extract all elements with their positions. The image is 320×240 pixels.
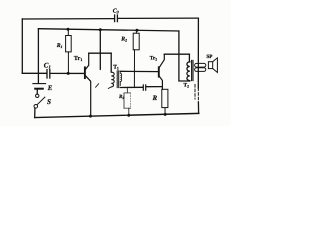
node base Tr1 [67, 72, 70, 75]
capacitor C2 [143, 85, 145, 90]
capacitor C1 [47, 70, 50, 78]
wire rail2 drop to T1 [99, 30, 101, 70]
resistor R1 [66, 29, 72, 73]
wire faint diag near emitter [96, 84, 99, 88]
node R1 top [67, 28, 70, 31]
wire T1 secondary top to Tr2 base [120, 70, 158, 72]
transformer T1 core [117, 71, 119, 88]
svg-text:S: S [47, 98, 51, 106]
resistor R3 [124, 87, 131, 115]
wire C2 to emitter Tr2 [146, 86, 162, 88]
wire rail2 right drop to T2 bottom [179, 31, 190, 81]
svg-text:C3: C3 [113, 8, 119, 14]
wire C1 to base node [51, 72, 85, 74]
node R bottom [164, 113, 167, 116]
node emitter Tr1 bottom [89, 115, 92, 118]
wire top rail right of C3 [118, 17, 199, 19]
wire right bottom corner [197, 102, 199, 113]
transformer T1 primary winding [111, 72, 114, 87]
resistor R [162, 89, 168, 114]
wire collector bar [89, 52, 112, 54]
node R2 top [136, 29, 139, 32]
wire right side dashed [195, 85, 198, 103]
wire right side outer [197, 18, 199, 88]
transistor Tr1 [85, 53, 91, 116]
wire battery drop [37, 29, 39, 83]
wire bottom rail [35, 113, 199, 117]
wire supply rail2 [38, 29, 179, 31]
battery E [33, 84, 46, 89]
svg-text:R: R [152, 95, 158, 102]
svg-text:SP: SP [206, 54, 213, 60]
wire top rail left of C3 [22, 18, 114, 20]
svg-text:E: E [47, 85, 53, 92]
wire T1 secondary bottom / bias node [120, 86, 142, 88]
transformer T2 primary winding [187, 62, 190, 81]
wire Tr2 collector to T2 [164, 53, 189, 55]
wire battery to switch [36, 90, 38, 95]
transformer T1 secondary [120, 71, 121, 85]
transformer T1 pigtail [108, 87, 111, 89]
transformer T1 primary lead [110, 53, 112, 72]
wire C1 input segment [22, 72, 46, 74]
speaker voice coil [195, 63, 206, 71]
wire switch to bottom rail [34, 108, 36, 117]
svg-text:Tr1: Tr1 [74, 55, 82, 62]
resistor R2 [133, 30, 139, 87]
wire left side down [21, 19, 23, 73]
switch S [34, 94, 45, 108]
node R3 bottom [127, 114, 130, 117]
transformer T2 core [192, 60, 193, 80]
node rail2 T1 drop [99, 28, 102, 31]
transformer T2 primary lead [188, 54, 190, 62]
capacitor C3 [115, 15, 118, 22]
transistor Tr2 [159, 54, 165, 89]
speaker SP [208, 58, 217, 73]
